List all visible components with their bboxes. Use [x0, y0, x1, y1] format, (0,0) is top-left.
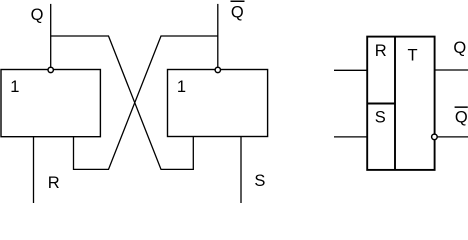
svg-text:Q: Q: [455, 109, 468, 127]
wire Q feedback to U2 input: [51, 36, 194, 169]
svg-text:R: R: [375, 42, 387, 60]
flip-flop U3 column divider: [394, 37, 396, 170]
inversion bubble U2 output: [215, 67, 220, 72]
flip-flop U3 R/S cell divider: [367, 103, 395, 105]
wire Q-bar output of U3: [437, 136, 468, 138]
wire Q-bar output vertical: [217, 4, 219, 67]
NOR gate U2 body (right): [168, 70, 268, 137]
flip-flop U3 body: [367, 37, 434, 170]
NOR gate U1 body (left): [1, 70, 100, 137]
svg-text:1: 1: [10, 78, 19, 96]
svg-text:S: S: [375, 108, 386, 126]
wire Q output of U3: [435, 69, 468, 71]
svg-text:T: T: [408, 46, 418, 64]
svg-text:Q: Q: [231, 4, 244, 22]
svg-text:S: S: [254, 172, 265, 190]
wire R input to U3: [334, 69, 367, 71]
wire R input: [33, 137, 35, 203]
inversion bubble U3 Q-bar output: [432, 134, 438, 140]
svg-text:Q: Q: [31, 6, 44, 24]
wire S input: [240, 137, 242, 203]
inversion bubble U1 output: [48, 67, 53, 72]
svg-text:R: R: [48, 174, 60, 192]
wire S input to U3: [334, 136, 367, 138]
svg-text:1: 1: [177, 78, 186, 96]
wire Q output vertical: [50, 4, 52, 67]
svg-text:Q: Q: [453, 39, 466, 57]
overbar of Q-bar label (U3 output): [455, 106, 468, 108]
overbar of Q-bar label: [231, 1, 245, 3]
wire Q-bar feedback to U1 input: [74, 36, 218, 169]
